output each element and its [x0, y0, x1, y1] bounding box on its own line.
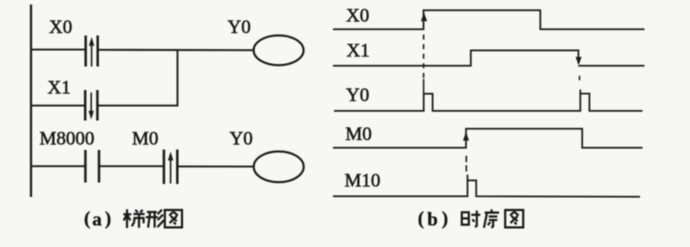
node branch junction vertical: [177, 50, 179, 106]
coil Y0 rung3: [254, 151, 304, 182]
svg-text:b: b: [427, 210, 438, 231]
dashed trigger line X1 -> Y0 pulse2: [579, 76, 581, 80]
arrow up on X0 rising edge: [421, 12, 427, 21]
wire rung1 right to coil: [99, 49, 254, 51]
timing row M0 waveform: [333, 129, 643, 148]
svg-text:(: (: [418, 209, 424, 230]
char 图: [505, 210, 523, 227]
contact M0 (rising-edge pulse contact): [164, 150, 177, 185]
wire rung2 right: [99, 105, 179, 107]
dashed trigger line M0 -> M10 pulse: [465, 156, 467, 172]
wire rung3 mid: [100, 165, 163, 167]
svg-text:M8000: M8000: [40, 129, 95, 150]
contact X1 (falling-edge pulse contact): [85, 90, 97, 121]
contact M8000: [85, 150, 99, 183]
timing row M10 waveform: [333, 175, 640, 197]
caption (b) timing: [418, 209, 448, 231]
arrow down on X1 falling edge: [576, 57, 582, 65]
timing row Y0 waveform: [334, 90, 643, 111]
arrow up on M0 rising edge: [463, 132, 469, 141]
coil Y0 rung1: [254, 35, 304, 65]
char 序: [484, 209, 499, 227]
caption text: hand-drawn CJK 梯形图: [123, 209, 182, 228]
svg-text:M10: M10: [345, 171, 381, 192]
svg-text:Y0: Y0: [346, 85, 369, 106]
wire rung3 right to coil: [178, 165, 253, 167]
svg-text:X0: X0: [346, 6, 369, 27]
svg-text:X1: X1: [48, 78, 71, 99]
wire rung1 left: [30, 49, 85, 51]
char 梯: [123, 209, 144, 228]
contact X0 (rising-edge pulse contact): [86, 36, 98, 67]
svg-text:M0: M0: [345, 124, 371, 145]
svg-text:X0: X0: [49, 17, 72, 38]
svg-text:(: (: [84, 209, 90, 230]
char 时: [462, 211, 481, 227]
wire rung2 left: [30, 105, 85, 107]
caption (a) ladder: [84, 209, 111, 231]
wire rung3 left: [30, 165, 85, 167]
dashed trigger line X0 -> Y0 pulse1: [423, 35, 425, 80]
char 图: [165, 210, 182, 227]
svg-text:): ): [442, 209, 448, 230]
svg-text:M0: M0: [132, 129, 158, 150]
svg-text:a: a: [92, 210, 102, 231]
timing row X1 waveform: [333, 50, 645, 65]
caption text: hand-drawn CJK 时序图: [462, 209, 523, 227]
ladder left power rail: [30, 5, 32, 198]
char 形: [146, 210, 164, 228]
svg-text:X1: X1: [347, 41, 370, 62]
svg-text:Y0: Y0: [228, 17, 251, 38]
svg-text:Y0: Y0: [230, 129, 253, 150]
svg-text:): ): [105, 209, 111, 230]
timing row X0 waveform: [333, 10, 645, 29]
